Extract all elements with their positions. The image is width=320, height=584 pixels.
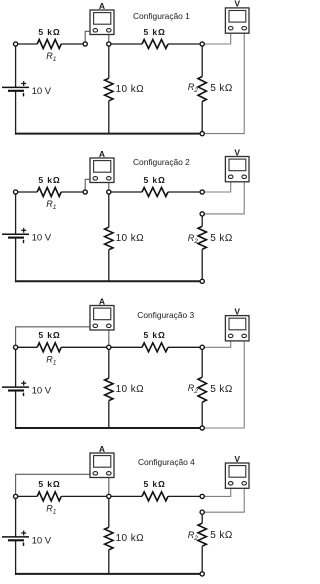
svg-text:5 kΩ: 5 kΩ [210,384,233,395]
svg-text:10 kΩ: 10 kΩ [116,233,145,244]
svg-text:5 kΩ: 5 kΩ [38,479,60,489]
svg-text:5 kΩ: 5 kΩ [210,233,233,244]
svg-text:5 kΩ: 5 kΩ [143,27,165,37]
svg-text:10 V: 10 V [32,233,52,244]
svg-text:10 V: 10 V [32,386,52,397]
svg-text:Configuração 1: Configuração 1 [133,11,190,21]
svg-text:A: A [99,1,105,11]
svg-text:5 kΩ: 5 kΩ [143,175,165,185]
svg-text:5 kΩ: 5 kΩ [210,83,233,94]
svg-text:5 kΩ: 5 kΩ [143,330,165,340]
svg-text:V: V [234,147,240,157]
svg-text:10 kΩ: 10 kΩ [116,533,145,544]
svg-text:5 kΩ: 5 kΩ [143,479,165,489]
svg-text:10 V: 10 V [32,86,52,97]
svg-text:10 V: 10 V [32,535,52,546]
svg-text:10 kΩ: 10 kΩ [116,384,145,395]
svg-text:5 kΩ: 5 kΩ [38,330,60,340]
svg-text:A: A [99,296,105,306]
svg-text:V: V [234,0,240,9]
svg-text:5 kΩ: 5 kΩ [38,27,60,37]
svg-text:A: A [99,149,105,159]
svg-text:V: V [234,454,240,464]
svg-text:Configuração 3: Configuração 3 [137,310,194,320]
svg-text:10 kΩ: 10 kΩ [116,84,145,95]
svg-text:5 kΩ: 5 kΩ [210,530,233,541]
svg-text:A: A [99,444,105,454]
svg-text:Configuração 4: Configuração 4 [138,457,195,467]
svg-text:V: V [234,306,240,316]
svg-text:5 kΩ: 5 kΩ [38,175,60,185]
svg-text:Configuração 2: Configuração 2 [133,157,190,167]
